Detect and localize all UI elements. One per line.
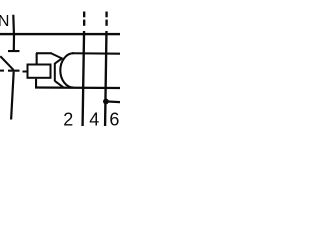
wire: N pole drop from top to busbar — [12, 15, 15, 33]
N busbar wire — [0, 33, 120, 35]
wire: branch from junction to right edge — [106, 100, 121, 103]
mechanical linkage dash 1 (pole B) — [105, 12, 107, 18]
trip relay rectangle — [28, 65, 51, 78]
mechanical linkage dash 1 (pole A) — [83, 12, 85, 18]
linkage tick at left edge — [0, 70, 4, 72]
svg-text:4: 4 — [89, 109, 99, 129]
mechanical linkage dash 2 (pole B) — [105, 20, 107, 26]
mechanical linkage dash 2 (pole A) — [83, 20, 85, 26]
wire: top secondary lead right segment — [72, 52, 120, 55]
coil bar of trip unit — [54, 63, 56, 81]
bevel from coil bar bottom to toroid — [55, 81, 64, 88]
wire: N pole busbar to fixed contact — [13, 35, 15, 50]
wire: top secondary lead left segment — [36, 52, 52, 54]
contact terminal bar (bottom fixed contact of N pole) — [8, 70, 20, 72]
wire: connector from trip relay down to bottom lead — [35, 79, 37, 88]
svg-text:6: 6 — [109, 109, 119, 129]
wire: bottom secondary lead to right edge — [35, 86, 120, 89]
moving contact lever of N pole — [0, 56, 13, 70]
svg-text:N: N — [0, 13, 9, 30]
bevel from coil bar top to toroid — [55, 58, 63, 64]
wire: connector from top lead down to trip relay — [36, 53, 38, 64]
junction dot on conductor B — [103, 99, 109, 105]
wire: N pole bottom conductor — [10, 72, 15, 120]
svg-text:2: 2 — [63, 109, 73, 129]
wire: phase conductor B — [104, 31, 108, 126]
wire: diagonal of top lead into toroid — [51, 53, 62, 58]
linkage stub on trip relay — [23, 71, 27, 73]
contact terminal bar (top fixed contact of N pole) — [8, 50, 20, 52]
wire: phase conductor A through toroid — [81, 31, 85, 126]
toroid sensing core (left arc of ellipse) — [60, 53, 73, 87]
